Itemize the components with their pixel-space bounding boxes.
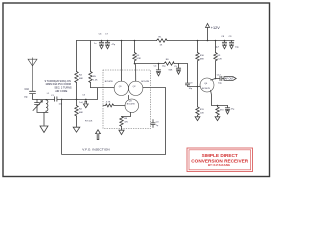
top supply rail (77, 40, 235, 42)
wire (Q1 collector) (121, 41, 123, 82)
border frame (3, 3, 270, 177)
svg-text:2.2K: 2.2K (217, 58, 222, 60)
capacitor C4 (156, 64, 160, 76)
transistor Q3 (125, 99, 139, 113)
ground (215, 117, 220, 121)
transformer T1 tuned circuit (33, 99, 49, 125)
svg-text:BC547B: BC547B (202, 88, 210, 90)
svg-text:56K: 56K (169, 70, 173, 72)
resistor R6 (series) (164, 62, 174, 65)
capacitor C12 (output coupling) (216, 76, 225, 80)
svg-text:68K: 68K (79, 78, 83, 80)
svg-text:BC547B: BC547B (105, 81, 113, 83)
svg-text:10K: 10K (200, 113, 204, 115)
svg-text:3.9K: 3.9K (136, 58, 141, 60)
svg-text:+12V: +12V (211, 26, 220, 30)
resistor R4 (75, 41, 78, 100)
svg-text:R7 10K: R7 10K (85, 120, 93, 122)
svg-text:BY: K.P.S.KANG: BY: K.P.S.KANG (208, 163, 231, 167)
resistor R12 (emitter) (216, 106, 219, 117)
capacitor C7 (105, 41, 109, 49)
wire (mixer output, y=63.3) (135, 64, 188, 83)
capacitor C3 (151, 120, 155, 128)
node arrow annotation (down) (83, 101, 88, 108)
capacitor C1 (series) (55, 97, 57, 101)
capacitor C13 (emitter bypass) (225, 106, 229, 115)
capacitor C5 (176, 64, 180, 75)
antenna (28, 58, 37, 91)
wire (signal, y=99) (48, 98, 98, 100)
resistor R7 (Q3 base series) (103, 104, 125, 107)
wire (emitter join to Q3) (128, 95, 130, 99)
output tag AF OUT (224, 77, 236, 81)
svg-text:V.F.O. INJECTION: V.F.O. INJECTION (82, 147, 109, 151)
ground (73, 127, 80, 132)
wire (VFO injection loop) (62, 88, 166, 155)
capacitor C8 (222, 41, 226, 49)
resistor R3 (133, 41, 136, 82)
resistor R8 (Q3 emitter) (120, 113, 131, 130)
wire (step up to mixer input) (91, 88, 115, 100)
junction dots (61, 40, 226, 107)
capacitor C9 (229, 41, 233, 49)
svg-text:AF OUT: AF OUT (225, 77, 234, 80)
wire (Q4 emitter) (211, 90, 228, 105)
coil note text (45, 80, 72, 93)
title box (187, 148, 253, 172)
ground (119, 130, 124, 134)
capacitor C6 (99, 41, 103, 49)
ground (195, 117, 200, 121)
ground (40, 126, 48, 133)
svg-text:68K: 68K (200, 58, 204, 60)
svg-text:BC547B: BC547B (127, 104, 135, 106)
node arrow annotation (up, VFO) (96, 130, 101, 140)
resistor R1 (series in rail) (157, 39, 168, 42)
svg-text:C10: C10 (25, 88, 30, 91)
resistor R2 (75, 99, 78, 126)
resistor R9 (collector load) (214, 41, 217, 79)
svg-text:1.2K: 1.2K (93, 79, 98, 81)
svg-text:BC547B: BC547B (141, 81, 149, 83)
wire (Q4 collector) (211, 79, 216, 81)
+12V supply arrow (206, 24, 210, 41)
svg-text:AIR CORE: AIR CORE (55, 90, 67, 93)
svg-text:68K: 68K (79, 112, 83, 114)
transistor Q2 (129, 81, 143, 95)
dashed mixer block outline (103, 70, 151, 129)
transistor Q1 (114, 81, 128, 95)
transistor Q4 (200, 78, 214, 92)
resistor R11 (bias lower) (196, 87, 199, 117)
capacitor C11 (series coupling) (185, 83, 200, 86)
capacitor C10 (30, 91, 36, 99)
svg-text:SIMPLE DIRECT: SIMPLE DIRECT (202, 153, 238, 158)
resistor R10 (bias upper) (196, 41, 199, 87)
svg-text:4.7K: 4.7K (106, 102, 111, 104)
resistor R5 (89, 41, 92, 88)
